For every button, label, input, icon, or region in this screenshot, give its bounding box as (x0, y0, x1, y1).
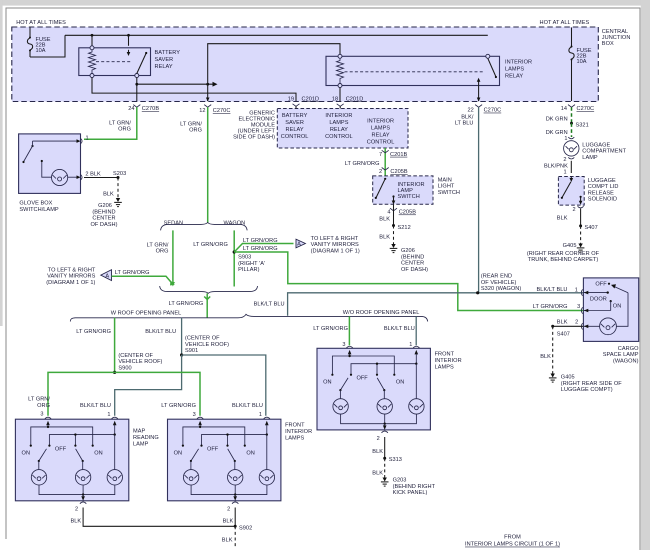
svg-text:LAMPS: LAMPS (435, 365, 454, 371)
cargo pin labels (575, 320, 578, 326)
svg-text:2: 2 (379, 169, 382, 175)
svg-text:12: 12 (199, 108, 205, 114)
svg-text:(BEHIND: (BEHIND (92, 209, 115, 215)
node junction on pin12 drop (206, 83, 209, 86)
node battery saver switch top (127, 34, 130, 46)
pin 2 exit (75, 495, 86, 513)
svg-text:2: 2 (75, 507, 78, 513)
label FRONT INTERIOR LAMPS (285, 423, 312, 442)
svg-text:S901: S901 (185, 348, 198, 354)
lamp assembly E3 front interior lamps (w/o roof) (317, 346, 462, 442)
pin 4 C205B connector (387, 208, 416, 215)
svg-text:FRONT: FRONT (285, 423, 305, 429)
svg-text:CARGO: CARGO (618, 346, 639, 352)
internal bus upper (182, 426, 246, 447)
luggage lamp pin 1 cup (564, 136, 574, 142)
glove box pin 1 exit cup (81, 136, 89, 144)
label LUGGAGE COMPT LID RELEASE SOLENOID (588, 178, 619, 203)
svg-text:10A: 10A (36, 48, 46, 54)
lamp 3 (409, 364, 424, 414)
label LT GRN/ORG (sedan) (147, 243, 169, 255)
svg-text:C201D: C201D (302, 96, 320, 102)
svg-text:(REAR END: (REAR END (481, 274, 512, 280)
label LT GRN/ORG (middle box pin 3) (161, 403, 196, 418)
wire interior relay coil bottom to pin 18 (339, 88, 341, 102)
svg-text:BLK: BLK (557, 215, 568, 221)
cargo space lamp box (583, 278, 638, 342)
svg-text:COMPT LID: COMPT LID (588, 184, 619, 190)
ground G206 (main light switch) (390, 244, 398, 253)
svg-text:1: 1 (259, 412, 262, 418)
svg-text:INTERIOR: INTERIOR (367, 119, 394, 125)
interior lamps relay coil (337, 58, 344, 83)
svg-text:C270B: C270B (142, 106, 160, 112)
svg-text:KICK PANEL): KICK PANEL) (393, 490, 428, 496)
svg-text:CENTER: CENTER (401, 261, 424, 267)
svg-text:LAMP: LAMP (398, 188, 414, 194)
wire battery saver coil bottom to pin 19 (92, 78, 296, 102)
svg-text:LT GRN/: LT GRN/ (28, 397, 50, 403)
svg-text:S321: S321 (576, 122, 589, 128)
wire BLK/LT BLU pin 22 down to S320 (478, 107, 480, 293)
label LT GRN/ORG (S900 drop) (76, 329, 111, 335)
svg-text:ORG: ORG (189, 127, 202, 133)
svg-text:BATTERY: BATTERY (155, 50, 181, 56)
svg-text:3: 3 (577, 304, 580, 310)
svg-text:LT GRN/ORG: LT GRN/ORG (243, 246, 278, 252)
fuse F22B left (27, 28, 32, 58)
label W/O ROOF OPENING PANEL (343, 310, 420, 316)
svg-text:VANITY MIRRORS: VANITY MIRRORS (47, 274, 95, 280)
svg-text:RELAY: RELAY (505, 74, 523, 80)
svg-text:ON: ON (613, 304, 621, 310)
svg-text:(RIGHT REAR CORNER OF: (RIGHT REAR CORNER OF (527, 251, 600, 257)
label BLK/LT BLU (pin 22 wire) (455, 114, 474, 126)
label LUGGAGE COMPARTMENT LAMP (582, 143, 626, 161)
svg-text:S900: S900 (118, 365, 131, 371)
svg-text:BATTERY: BATTERY (282, 113, 308, 119)
ground G405 (trunk) (577, 244, 585, 253)
svg-text:(WAGON): (WAGON) (613, 358, 639, 364)
svg-text:C205B: C205B (390, 169, 408, 175)
wire LT GRN/ORG S900 to middle box pin 3 (115, 372, 200, 415)
wire BLK/LT BLU S901 to middle box pin 1 (182, 355, 266, 416)
wire BLK S407 to G405 (cargo) (540, 326, 553, 373)
glove box pin 1 internal wire (33, 139, 81, 143)
svg-text:ORG: ORG (156, 249, 169, 255)
label W ROOF OPENING PANEL (111, 310, 182, 316)
glove box switch blade (22, 141, 33, 163)
svg-text:WAGON: WAGON (224, 220, 246, 226)
svg-text:G203: G203 (393, 478, 407, 484)
svg-text:S903: S903 (238, 255, 251, 261)
label HOT AT ALL TIMES (left) (16, 20, 66, 26)
svg-text:TO LEFT & RIGHT: TO LEFT & RIGHT (311, 236, 359, 242)
svg-text:ON: ON (323, 380, 331, 386)
svg-text:2 BLK: 2 BLK (85, 172, 101, 178)
central junction box (dashed) (12, 27, 599, 102)
internal bus lower (48, 433, 116, 446)
wire BLK right box pin 2 to S313 (372, 437, 384, 458)
ground G203 (381, 478, 389, 487)
label BLK/LT BLU (S901 drop) (145, 329, 176, 335)
label BLK (cargo pin 2) (557, 320, 568, 326)
svg-text:FROM: FROM (504, 535, 521, 541)
sedan/wagon split brace (161, 223, 248, 231)
svg-text:SPACE LAMP: SPACE LAMP (603, 352, 639, 358)
svg-text:ON: ON (396, 380, 404, 386)
wire BLK cargo pin 2 to S407 (553, 325, 583, 327)
svg-text:LAMPS: LAMPS (285, 436, 304, 442)
wire LT GRN/ORG pin 12 down to split (207, 107, 209, 222)
svg-text:TRUNK, BEHIND CARPET): TRUNK, BEHIND CARPET) (528, 257, 599, 263)
svg-text:FRONT: FRONT (435, 352, 455, 358)
svg-text:BLK/LT BLU: BLK/LT BLU (254, 301, 285, 307)
svg-text:DOOR: DOOR (590, 296, 607, 302)
svg-text:1: 1 (107, 412, 110, 418)
wire LT GRN/ORG S903 to cargo lamp (234, 252, 583, 311)
label GENERIC ELECTRONIC MODULE (233, 111, 275, 141)
svg-text:3: 3 (342, 342, 345, 348)
internal bus lower (200, 433, 268, 446)
label G405 right rear side of luggage compt (561, 375, 622, 394)
solenoid switch blade (561, 182, 571, 199)
wire DK GRN S321 to lamp (571, 123, 573, 137)
wire LT GRN/ORG GEM pin 7 to switch (384, 148, 386, 176)
svg-text:ORG: ORG (118, 126, 131, 132)
svg-text:S902: S902 (239, 525, 252, 531)
svg-text:3: 3 (193, 412, 196, 418)
lamp 3 (259, 435, 274, 485)
wire LT GRN/ORG vanity left to sedan wire (112, 276, 175, 285)
wire battery saver switch to pin 24 (136, 78, 138, 102)
lamp return bus (191, 485, 267, 496)
battery saver relay internal dashed link (96, 61, 131, 63)
svg-text:BLK: BLK (379, 235, 390, 241)
svg-text:(RIGHT 'A': (RIGHT 'A' (238, 261, 265, 267)
solenoid output contact (579, 196, 583, 205)
wire BLK switch pin 4 to S212 (379, 205, 393, 226)
lamp 2 (75, 470, 90, 485)
pin 2 exit (377, 424, 388, 442)
svg-text:LT GRN/ORG: LT GRN/ORG (533, 304, 568, 310)
svg-text:10A: 10A (577, 59, 587, 65)
switch blade right (76, 449, 84, 470)
svg-text:(RIGHT REAR SIDE OF: (RIGHT REAR SIDE OF (561, 381, 622, 387)
wire BLK/LT BLU S901 to left box pin 1 (115, 355, 182, 416)
svg-text:OF VEHICLE): OF VEHICLE) (481, 280, 517, 286)
svg-text:SWITCH/LAMP: SWITCH/LAMP (19, 207, 59, 213)
svg-text:C270C: C270C (213, 108, 231, 114)
svg-text:CONTROL: CONTROL (367, 140, 395, 146)
battery saver relay fixed contact (127, 50, 131, 56)
svg-text:INTERIOR: INTERIOR (435, 358, 462, 364)
svg-text:(BEHIND: (BEHIND (401, 254, 424, 260)
wire fuse to top rail (30, 35, 65, 57)
svg-text:BLK: BLK (379, 217, 390, 223)
svg-text:(BEHIND RIGHT: (BEHIND RIGHT (393, 484, 436, 490)
label LT GRN/ORG (pin 7 wire) (345, 161, 380, 167)
wire LT GRN/ORG bracket to right box pin 3 (348, 316, 350, 345)
cargo lamp pin 2 entry (581, 323, 599, 329)
svg-text:(DIAGRAM 1 OF 1): (DIAGRAM 1 OF 1) (311, 249, 360, 255)
svg-text:CONTROL: CONTROL (325, 134, 353, 140)
wire LT GRN/ORG pin 24 to glove box (84, 107, 137, 139)
label TO VANITY MIRRORS (right) (311, 236, 360, 255)
label INTERIOR LAMPS RELAY (505, 60, 532, 80)
svg-text:LUGGAGE: LUGGAGE (588, 178, 616, 184)
lamp 2 (228, 470, 243, 485)
lamp 3 (107, 435, 122, 485)
svg-text:BLK: BLK (372, 471, 383, 477)
label G405 (563, 243, 577, 249)
solenoid internal contact arrow (570, 177, 574, 183)
svg-text:VANITY MIRRORS: VANITY MIRRORS (311, 242, 359, 248)
svg-text:BLK: BLK (222, 538, 233, 544)
svg-text:C205B: C205B (399, 210, 417, 216)
internal bus upper (30, 426, 94, 447)
gray left margin (0, 0, 3, 326)
svg-text:OFF: OFF (356, 376, 368, 382)
solenoid pin 2 cup (572, 206, 583, 213)
svg-text:A: A (105, 273, 109, 279)
connector triangle A (right) (296, 239, 305, 248)
wire BLK S212 to G206 (379, 226, 393, 245)
label LT GRN/ORG (S903 lower) (243, 246, 278, 252)
label LT GRN/ORG (right box pin 3) (313, 326, 348, 348)
svg-text:BLK/LT BLU: BLK/LT BLU (80, 403, 111, 409)
map reading lamp box (15, 419, 128, 501)
switch blade right (377, 378, 385, 399)
fuse F22B right (569, 28, 574, 102)
gray right margin (641, 0, 650, 550)
cargo lamp bulb (600, 318, 617, 335)
label LT GRN/ORG (merge stub) (169, 301, 204, 307)
label CARGO SPACE LAMP (WAGON) (603, 346, 639, 365)
label BLK/LT BLU (middle box pin 1) (232, 403, 263, 418)
wire pin 18 into GEM (339, 106, 341, 108)
interior lamp switch output contact (392, 195, 396, 204)
lamp assembly E1 map reading lamp (15, 417, 158, 513)
splice S212 (392, 224, 411, 231)
battery saver relay coil terminals (90, 46, 94, 78)
label FUSE 22B 10A (left) (36, 37, 51, 54)
cargo lamp switch blade (611, 284, 628, 293)
svg-text:HOT AT ALL TIMES: HOT AT ALL TIMES (540, 20, 590, 26)
label BATTERY SAVER RELAY (155, 50, 181, 70)
svg-text:BLK: BLK (557, 320, 568, 326)
pin 1 entry (112, 417, 118, 434)
svg-text:1: 1 (563, 170, 566, 176)
wire LT GRN/ORG S900 to left box pin 3 (48, 372, 115, 415)
splice S407 (579, 224, 598, 231)
switch blade left (339, 378, 348, 399)
glove box pin 2 exit cup (81, 172, 102, 181)
label BLK/LT BLU (S320 wire) (537, 287, 578, 293)
svg-text:HOT AT ALL TIMES: HOT AT ALL TIMES (16, 20, 66, 26)
cargo lamp ON contact (610, 300, 622, 311)
connector triangle A (left) (101, 270, 112, 281)
pin 14 C270C connector symbol (561, 105, 594, 113)
internal bus upper (331, 355, 395, 376)
label BLK/LT BLU (right box pin 1) (384, 326, 415, 348)
internal bus lower (350, 363, 418, 376)
splice S903 (233, 250, 265, 273)
svg-text:G206: G206 (98, 203, 112, 209)
splice S320 (476, 291, 479, 294)
front interior lamps box 2 (317, 348, 430, 430)
svg-text:TO LEFT & RIGHT: TO LEFT & RIGHT (48, 267, 96, 273)
roof panel option brackets (70, 314, 427, 321)
svg-text:(DIAGRAM 1 OF 1): (DIAGRAM 1 OF 1) (46, 280, 95, 286)
svg-text:S212: S212 (398, 225, 411, 231)
label DK GRN (546, 117, 568, 123)
splice S203 (113, 171, 126, 179)
svg-text:BLK/LT BLU: BLK/LT BLU (384, 326, 415, 332)
cargo lamp pin 3 entry (581, 307, 610, 313)
svg-text:BLK: BLK (223, 518, 234, 524)
svg-text:ON: ON (94, 451, 102, 457)
svg-text:SAVER: SAVER (155, 57, 174, 63)
svg-text:LUGGAGE COMPT): LUGGAGE COMPT) (561, 387, 613, 393)
svg-text:MAP: MAP (133, 429, 145, 435)
label GEM interior lamps relay control 2 (367, 119, 395, 146)
svg-text:OFF: OFF (55, 447, 67, 453)
glove box lamp leads (41, 160, 81, 179)
wire interior relay contact to pin 22 (477, 86, 481, 102)
svg-text:2: 2 (575, 320, 578, 326)
svg-text:MAIN: MAIN (438, 178, 452, 184)
front interior lamps box (168, 419, 281, 501)
svg-text:BLK: BLK (70, 518, 81, 524)
wire BLK S203 to G206 (103, 178, 118, 199)
svg-text:1: 1 (564, 136, 567, 142)
label LT GRN/ORG (vanity left wire) (115, 270, 150, 276)
node battery saver coil top (91, 34, 94, 46)
interior lamps relay internal dashed link (345, 71, 485, 73)
arrow at pin 12 border (206, 98, 210, 102)
lamp 1 (31, 470, 46, 485)
svg-text:RELEASE: RELEASE (588, 190, 614, 196)
sedan/wagon merge brace (160, 286, 258, 293)
label BLK/LT BLU (left box pin 1) (80, 403, 111, 418)
pin 1 entry (264, 417, 270, 434)
splice S313 (383, 457, 402, 464)
svg-text:LT GRN/ORG: LT GRN/ORG (169, 301, 204, 307)
svg-text:14: 14 (561, 106, 567, 112)
svg-text:G206: G206 (401, 248, 415, 254)
svg-text:3: 3 (40, 411, 43, 417)
pin 2 C205B connector (379, 168, 408, 176)
svg-text:OF DASH): OF DASH) (90, 222, 117, 228)
wire interior relay coil feed (208, 44, 340, 101)
svg-text:LUGGAGE: LUGGAGE (582, 143, 610, 149)
svg-text:OFF: OFF (207, 447, 219, 453)
svg-text:BLK/LT BLU: BLK/LT BLU (232, 403, 263, 409)
label LT GRN/ORG (to vanity right) (243, 238, 278, 244)
wire BLK S313 to G203 (372, 458, 384, 477)
svg-text:BLK: BLK (103, 191, 114, 197)
label TO VANITY MIRRORS (left) (46, 267, 96, 286)
lamp 1 (333, 399, 348, 414)
svg-text:LT GRN/ORG: LT GRN/ORG (161, 403, 196, 409)
cargo lamp internal return (616, 293, 628, 327)
svg-text:BLK: BLK (372, 449, 383, 455)
svg-text:INTERIOR: INTERIOR (285, 429, 312, 435)
svg-text:LAMPS: LAMPS (505, 67, 524, 73)
label DOOR (590, 296, 607, 302)
pin 18 C201D connector symbol (332, 96, 363, 106)
wire LT GRN/ORG merge stub (204, 293, 210, 317)
wire BLK/LT BLU bracket to S901 (181, 318, 183, 355)
label LT GRN/ORG (pin 12 wire) (180, 121, 202, 133)
lamp return bus (39, 485, 115, 496)
glove box lamp (52, 169, 68, 185)
pin 1 entry (413, 346, 419, 363)
svg-text:24: 24 (128, 106, 134, 112)
GEM module U1 (dashed box) (277, 109, 408, 149)
svg-text:BLK/LT BLU: BLK/LT BLU (145, 329, 176, 335)
svg-text:READING: READING (133, 435, 159, 441)
svg-text:W/O ROOF OPENING PANEL: W/O ROOF OPENING PANEL (343, 310, 420, 316)
solenoid pin 1 (563, 170, 566, 176)
wire BLK middle box pin 2 to S902 (223, 508, 236, 527)
battery saver relay switch blade (135, 52, 147, 78)
label WAGON (224, 220, 246, 226)
interior lamp switch blade (375, 178, 387, 199)
wire BLK left box pin 2 to S902 (70, 508, 235, 527)
pin 3 entry (346, 346, 352, 356)
cargo lamp pin 1 entry (581, 289, 609, 295)
pin 22 C270C connector symbol (467, 105, 501, 114)
svg-text:BLK: BLK (540, 354, 551, 360)
svg-text:RELAY: RELAY (155, 64, 173, 70)
svg-text:COMPARTMENT: COMPARTMENT (582, 149, 626, 155)
pin 7 C201B connector (379, 150, 407, 158)
label MAP READING LAMP (133, 429, 159, 448)
svg-text:G405: G405 (563, 243, 577, 249)
label GEM battery saver relay control (281, 113, 309, 140)
label G206 ground (90, 203, 117, 228)
wire LT GRN/ORG bracket to S900 (114, 318, 116, 373)
svg-text:S203: S203 (113, 171, 126, 177)
svg-text:LT GRN/ORG: LT GRN/ORG (243, 238, 278, 244)
svg-text:1: 1 (575, 287, 578, 293)
wire BLK S407 to G405 (580, 226, 582, 244)
lamp assembly E2 front interior lamps (with roof) (168, 417, 313, 513)
svg-text:DK GRN: DK GRN (546, 117, 568, 123)
svg-text:ON: ON (22, 451, 30, 457)
svg-text:SWITCH: SWITCH (438, 190, 460, 196)
label right rear corner of trunk (527, 251, 600, 263)
label INTERIOR LAMP SWITCH (398, 182, 425, 200)
svg-text:BOX: BOX (602, 41, 614, 47)
wire BLK S902 down (222, 526, 235, 548)
node switch output junction (135, 83, 138, 86)
label FROM footer (465, 535, 560, 548)
svg-text:INTERIOR LAMPS CIRCUIT (1 OF 1: INTERIOR LAMPS CIRCUIT (1 OF 1) (465, 542, 560, 548)
label LT GRN/ORG (cargo pin 3) (533, 304, 581, 310)
svg-text:S407: S407 (585, 225, 598, 231)
cargo lamp OFF contact (595, 282, 610, 288)
svg-text:SAVER: SAVER (285, 120, 304, 126)
interior lamps relay coil terminals (338, 54, 342, 87)
wire LT GRN/ORG S903 to vanity triangle (234, 244, 293, 253)
wire BLK/LT BLU bracket to right box pin 1 (415, 316, 417, 345)
svg-text:LAMP: LAMP (133, 442, 149, 448)
splice S407 (cargo) (551, 325, 570, 338)
luggage compartment lamp (564, 141, 579, 156)
